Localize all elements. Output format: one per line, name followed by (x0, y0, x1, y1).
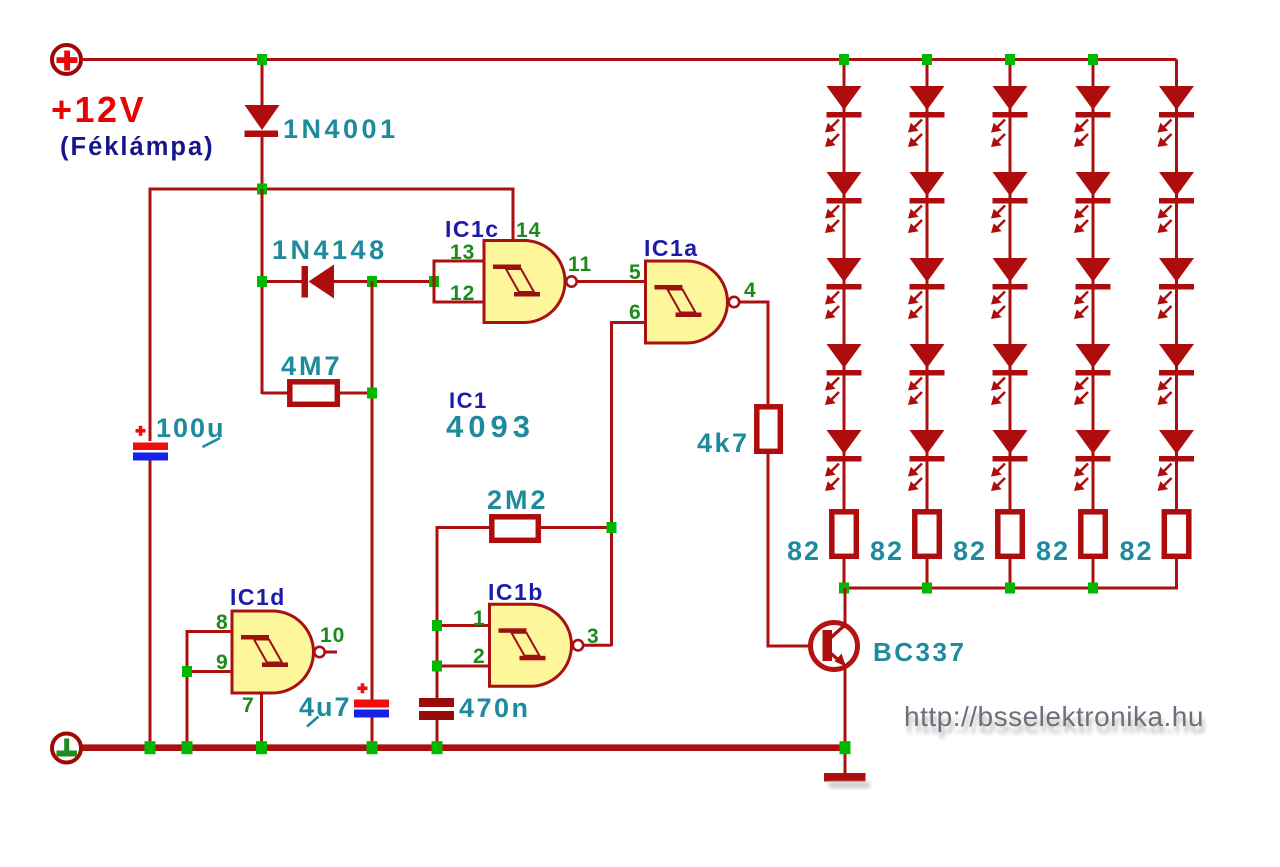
node junction ground (437,747) (432, 741, 443, 754)
svg-text:IC1b: IC1b (488, 579, 544, 605)
capacitor C3 470n (419, 698, 454, 720)
node junction (434,281) (429, 276, 439, 287)
resistor R5 82 col3 (998, 512, 1023, 557)
node junction ground (150,747) (145, 741, 156, 754)
wire IC1b output (584, 644, 612, 647)
op-amp gate IC1a NAND (646, 261, 740, 343)
LED column 5 wire (1175, 60, 1178, 512)
wire IC1d pin8 pin9 (187, 632, 232, 746)
svg-text:12: 12 (450, 282, 475, 305)
svg-text:IC1d: IC1d (230, 584, 286, 610)
LED column 2 wire (926, 60, 929, 512)
node junction (262,189) (257, 184, 267, 195)
svg-text:7: 7 (242, 694, 254, 717)
svg-text:http://bsselektronika.hu: http://bsselektronika.hu (904, 701, 1204, 732)
power symbol +12V terminal (52, 45, 81, 74)
wire to 4M7 (262, 392, 291, 395)
capacitor C1 100u electrolytic (133, 426, 168, 461)
svg-text:5: 5 (629, 261, 641, 284)
resistor R6 82 col4 (1081, 512, 1106, 557)
diode D2 1N4148 (262, 265, 334, 299)
resistor R1 4M7 (290, 382, 338, 405)
wires resistors to bottom rail (844, 559, 1177, 588)
wire vertical x372 (371, 282, 374, 701)
wire IC1c input bracket (434, 261, 484, 302)
LEDs column 2 (908, 86, 945, 491)
wire IC1a output to 4k7 (740, 302, 769, 406)
svg-text:IC1c: IC1c (445, 216, 500, 242)
op-amp gate IC1d NAND (232, 611, 325, 693)
node junction ground (261,747) (256, 741, 267, 754)
node junction ground (187,747) (182, 741, 193, 754)
node junction (372,393) (367, 388, 377, 399)
svg-text:IC1a: IC1a (644, 235, 699, 261)
wire diode to node (261, 136, 264, 190)
svg-text:2M2: 2M2 (487, 485, 549, 515)
svg-text:+12V: +12V (51, 89, 146, 130)
svg-text:4093: 4093 (446, 409, 535, 444)
ground terminal symbol (52, 734, 81, 763)
op-amp gate IC1b NAND (490, 604, 584, 686)
wire ground rail (82, 744, 846, 751)
svg-text:4: 4 (744, 279, 756, 302)
resistor R2 4k7 (757, 407, 781, 452)
resistor R7 82 col5 (1164, 512, 1189, 557)
wire 2M2 right (539, 526, 612, 529)
node junction (262,59) (257, 54, 267, 65)
op-amp gate IC1c NAND (484, 241, 577, 323)
svg-text:1: 1 (473, 607, 485, 630)
node junction (187,671) (182, 666, 192, 677)
LEDs column 5 (1158, 86, 1195, 491)
resistor R4 82 col2 (915, 512, 940, 557)
wire LED bottom rail (844, 60, 1177, 589)
node junction (437,625) (432, 620, 442, 631)
resistor R8 2M2 (492, 517, 539, 541)
node junction emitter-ground (845,747) (840, 741, 851, 754)
wire 470n to ground (436, 720, 439, 745)
svg-text:82: 82 (787, 536, 821, 566)
wire IC1b input stubs (437, 626, 490, 667)
svg-text:100u: 100u (156, 413, 226, 443)
transistor Q1 BC337 (811, 623, 858, 670)
LEDs column 4 (1074, 86, 1111, 491)
wire 2M2 left (437, 528, 491, 701)
LED column 3 wire (1009, 60, 1012, 512)
svg-text:10: 10 (320, 624, 345, 647)
LEDs column 3 (991, 86, 1028, 491)
svg-text:1N4148: 1N4148 (272, 235, 388, 265)
svg-text:4u7: 4u7 (299, 692, 352, 722)
LED column 4 wire (1092, 60, 1095, 512)
node junction (372,281) (367, 276, 377, 287)
svg-text:82: 82 (1036, 536, 1070, 566)
node junctions bottom rail LED columns (839, 583, 849, 594)
wire node to 1N4148 (261, 189, 264, 394)
ground bar symbol (824, 773, 866, 782)
wire collector to LED rail (844, 588, 847, 624)
wire 4k7 to transistor base (768, 454, 822, 646)
svg-text:4k7: 4k7 (697, 428, 750, 458)
svg-text:13: 13 (450, 241, 475, 264)
wire horizontal rail y189 (150, 189, 513, 441)
svg-text:1N4001: 1N4001 (283, 114, 399, 144)
svg-text:2: 2 (473, 645, 485, 668)
node junction (611,527) (607, 522, 617, 533)
node junction (262,281) (257, 276, 267, 287)
LEDs column 1 (825, 86, 862, 491)
wire IC1d output stub pin10 (325, 651, 337, 654)
wire 100u to ground (149, 461, 152, 746)
wire 1N4148 to IC1c inputs (334, 280, 434, 283)
svg-text:3: 3 (587, 625, 599, 648)
svg-text:82: 82 (870, 536, 904, 566)
node junction ground (372,747) (367, 741, 378, 754)
wire emitter to ground (844, 668, 847, 773)
node junction (437,666) (432, 661, 442, 672)
diode D1 1N4001 (245, 105, 280, 137)
svg-text:(Féklámpa): (Féklámpa) (60, 133, 215, 161)
wire IC1c output to IC1a pin5 (577, 280, 646, 283)
wire IC1d pin7 to ground (260, 693, 263, 745)
wire IC1a pin6 (612, 323, 646, 647)
node junctions top rail LED columns (839, 54, 849, 65)
svg-text:11: 11 (568, 253, 592, 276)
wire 4u7 to ground (371, 718, 374, 746)
svg-text:9: 9 (216, 651, 228, 674)
capacitor C2 4u7 electrolytic (354, 683, 389, 717)
svg-text:BC337: BC337 (873, 637, 966, 667)
svg-text:470n: 470n (459, 693, 531, 723)
svg-text:6: 6 (629, 301, 641, 324)
wire 4M7 to node (338, 392, 372, 395)
svg-text:4M7: 4M7 (281, 351, 343, 381)
svg-text:14: 14 (516, 219, 541, 242)
resistor R3 82 col1 (832, 512, 857, 557)
svg-text:82: 82 (953, 536, 987, 566)
svg-text:82: 82 (1119, 536, 1153, 566)
LED column 1 wire (843, 60, 846, 512)
svg-text:8: 8 (216, 611, 228, 634)
wire +12V to diode (261, 60, 264, 107)
wire top rail (83, 58, 1177, 61)
